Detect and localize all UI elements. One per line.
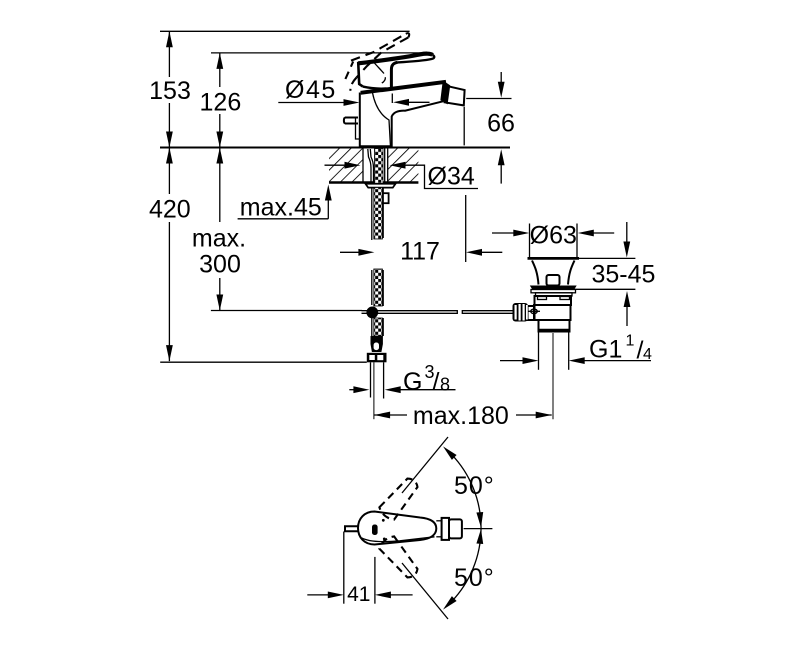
dim line 153/420 vertical [166,31,173,361]
window black [372,525,378,536]
narrow band [536,293,573,296]
supply pipe horizontal [362,310,458,312]
mounting nut [381,193,389,203]
thin extension to max180 [373,362,375,419]
hose middle segment [372,269,383,306]
svg-text:8: 8 [440,375,450,395]
tailpipe tube walls [538,332,540,370]
svg-text:117: 117 [400,238,440,266]
label max.180 dimension [374,414,407,416]
inlet connector [528,306,535,320]
junction dot [366,307,378,319]
top reference line 153 [160,30,410,32]
counter hatch left [329,149,363,183]
aerator extension line [463,107,465,145]
svg-text:max.: max. [192,225,246,253]
lever handle top edge [358,54,432,64]
G1 1/4 arrows [500,360,524,362]
aerator top view [442,518,449,540]
compression nut knurled [513,303,529,322]
41 arrows [307,594,330,596]
aerator [445,86,465,105]
hole left wall [362,149,364,183]
svg-text:50°: 50° [454,472,495,500]
hose end fitting [371,336,383,352]
shank left curve [368,149,371,182]
66 dim vertical [500,72,502,82]
centerline right [464,528,493,530]
aerator band [441,81,450,103]
svg-text:420: 420 [149,196,191,224]
svg-text:50°: 50° [454,564,495,592]
lever inner curve [374,62,385,74]
pop-up stem [547,275,560,286]
counter hatch right [388,149,419,183]
lever left face [358,62,363,87]
svg-text:35-45: 35-45 [592,261,656,289]
body teardrop [358,512,436,545]
dashed handle lower [379,536,417,577]
D34 leader and label [405,165,478,188]
svg-text:153: 153 [149,77,191,105]
svg-text:G: G [403,368,422,396]
lever neck [391,62,397,88]
bell neck [532,261,539,285]
D45 right extension line [391,94,393,104]
tailpipe centerline [552,333,554,419]
svg-text:/: / [433,368,440,396]
41 dim extension lines [343,532,345,604]
arc arrows [443,446,457,460]
tailpipe upper [539,320,570,332]
faucet body side view [344,54,465,148]
flange black bar [530,286,577,290]
D34 arrows [325,164,347,166]
35-45 dimension [577,257,635,259]
base line [360,145,392,147]
G3/8 nut [367,353,387,363]
50deg line lower [402,563,448,619]
svg-text:G1: G1 [589,336,622,364]
svg-text:Ø63: Ø63 [530,222,577,250]
tube below nut [370,362,372,397]
angle arc [452,455,481,602]
counter top line [160,147,510,149]
inner curve cartridge [373,93,391,147]
cap bottom [528,257,580,260]
svg-text:1: 1 [626,333,635,350]
max300 bottom reference line [211,310,362,312]
hose lower segment [372,318,383,337]
threaded rod in counter [375,149,384,201]
inlet screw ellipse [531,309,538,314]
supply stub left [345,526,359,531]
svg-text:66: 66 [487,110,515,138]
50deg line upper [402,437,448,493]
svg-text:max.45: max.45 [240,194,322,222]
washer under counter [366,184,396,188]
dots [382,519,385,522]
svg-text:300: 300 [199,251,241,279]
reference line 126 [211,52,429,54]
117 right extension line [465,195,467,262]
420 bottom reference line [160,361,367,363]
drain assembly [513,224,580,420]
main body [534,305,571,320]
svg-text:Ø45: Ø45 [285,76,337,104]
counter bottom line [329,181,418,183]
lever tip loop [398,55,435,63]
svg-text:41: 41 [347,583,370,606]
upper body with slots [535,296,572,305]
hose upper segment [372,188,383,241]
hole right wall [387,149,389,183]
bottom view [307,437,495,619]
gasket band [531,290,576,293]
svg-text:126: 126 [200,89,242,117]
66 reference line [466,98,511,100]
spout top edge thick [361,82,446,93]
dashed handle upper [379,479,417,520]
D45 right arrow [407,101,430,103]
inner bottom curve [362,537,435,542]
faucet shank in counter [366,149,396,204]
dome bottom edge [363,87,387,89]
G3/8 dim arrows [349,389,355,391]
spout neck [436,520,441,522]
svg-text:max.180: max.180 [413,402,509,430]
svg-text:Ø34: Ø34 [428,163,475,191]
cap walls / D63 extension lines [529,224,531,259]
body outline [360,93,443,148]
dashed raised handle [345,33,409,91]
dim line 126/max300 vertical [216,53,223,311]
pop-up rod [344,118,358,124]
